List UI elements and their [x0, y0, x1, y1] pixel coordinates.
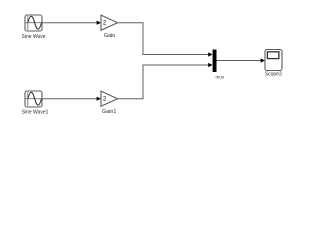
wire Gain to Mux (top input)	[118, 23, 209, 55]
svg-text:Gain: Gain	[104, 33, 115, 39]
wire Mux to Scope3	[217, 60, 261, 62]
wire Sine Wave to Gain	[42, 22, 97, 24]
block Mux (bar)	[213, 50, 217, 73]
arrowhead into Gain	[97, 21, 101, 25]
svg-text:mux: mux	[215, 74, 224, 79]
svg-text:Sine Wave: Sine Wave	[22, 34, 46, 40]
arrowhead into Scope3	[261, 58, 265, 62]
arrowhead into Mux bottom input	[208, 63, 212, 67]
wire Sine Wave1 to Gain1	[42, 98, 97, 100]
wire Gain1 to Mux (bottom input)	[118, 65, 209, 99]
block Scope3	[265, 50, 282, 71]
arrowhead into Mux top input	[208, 52, 212, 56]
arrowhead into Gain1	[97, 97, 101, 101]
block Sine Wave	[25, 15, 42, 31]
svg-text:Scope3: Scope3	[265, 72, 282, 78]
block Gain	[101, 15, 118, 30]
svg-text:Sine Wave1: Sine Wave1	[22, 109, 49, 115]
svg-text:Gain1: Gain1	[102, 109, 116, 115]
block Gain1	[101, 91, 118, 106]
block Sine Wave1	[25, 91, 42, 107]
